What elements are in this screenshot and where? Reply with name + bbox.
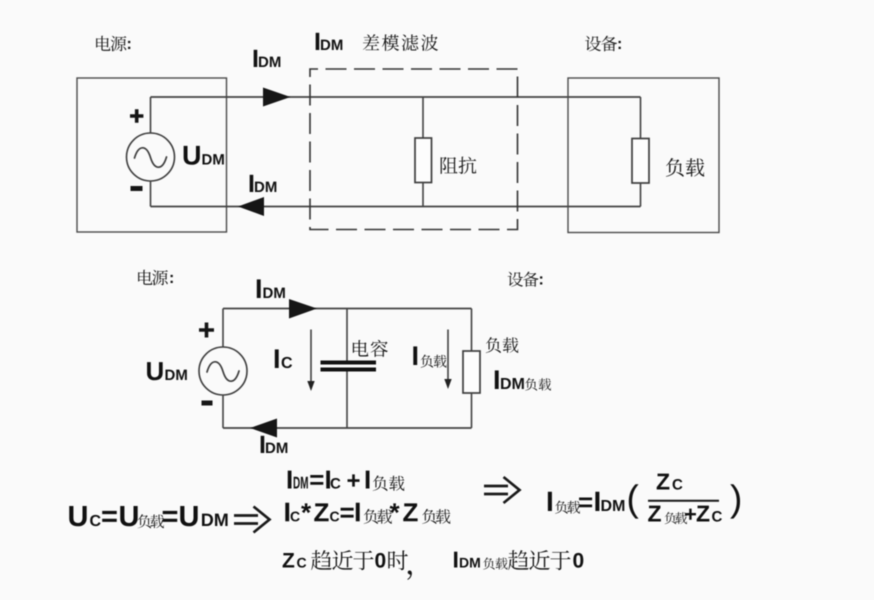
load component rect 负载 (top circuit) <box>632 139 649 184</box>
label: + terminal (middle circuit) <box>199 323 214 338</box>
wire: source negative lead (top circuit) <box>150 181 152 207</box>
arrow: I_DM current direction on top bus <box>263 88 291 107</box>
equipment enclosure box 设备 (top circuit) <box>568 78 719 233</box>
label: 负载 (load), top circuit <box>666 158 704 177</box>
label I_DM (top bus, middle circuit) <box>257 279 285 298</box>
arrow: implies (second double arrow) <box>484 477 520 503</box>
label I_DM (top bus, top circuit) <box>254 50 281 67</box>
capacitor C 电容: bottom plate <box>321 368 377 372</box>
label: 阻抗 (impedance) <box>441 157 477 174</box>
wire: source positive lead (top circuit) <box>150 97 152 134</box>
wire: top bus from source to load (top circuit) <box>151 96 641 98</box>
note: Zc tends to 0, I_DM负载 tends to 0 <box>283 550 584 580</box>
arrow: I_DM return (middle bottom bus) <box>250 419 277 438</box>
label I_DM (bottom bus, middle circuit) <box>261 436 288 453</box>
label I_DM (filter input) <box>316 33 343 50</box>
label I_DM负载 (load current), middle circuit <box>495 370 551 390</box>
label I_DM (bottom bus, top circuit) <box>250 175 277 192</box>
wire: impedance bottom lead <box>422 183 424 207</box>
label: 负载 (load), middle circuit <box>486 337 519 353</box>
wire: bottom bus / return (middle circuit) <box>223 427 472 429</box>
arrow: implies (first double arrow) <box>234 507 270 533</box>
label U_DM source value (middle circuit) <box>147 362 187 380</box>
label: 差模滤波 (differential mode filtering) <box>363 34 438 51</box>
wire: source positive lead (middle circuit) <box>222 309 224 348</box>
label I_C (capacitor branch current) <box>275 349 292 368</box>
wire: load top lead (top circuit) <box>640 97 642 139</box>
equation: I_负载 = I_DM ( Zc / (Z_负载 + Zc) ) <box>548 474 740 524</box>
label U_DM source value (top circuit) <box>184 146 224 165</box>
wire: source negative lead (middle circuit) <box>222 395 224 429</box>
impedance Z component 阻抗 (rect) <box>415 138 432 183</box>
equation: I_DM = I_C + I_负载 <box>288 471 405 491</box>
equation: U_C = U_负载 = U_DM <box>69 506 227 528</box>
equation: I_C * Z_C = I_负载 * Z_负载 <box>285 503 450 524</box>
capacitor C 电容: top plate <box>321 361 377 365</box>
filter dashed box 差模滤波 (differential-mode filter) <box>310 69 518 230</box>
arrow: I_DM return direction on bottom bus <box>238 197 264 216</box>
label: 电源 (power source) title, middle circuit <box>138 270 173 286</box>
label: 电源 (power source) title, top circuit <box>96 36 130 52</box>
wire: load top lead (middle circuit) <box>471 309 473 352</box>
wire: impedance top lead <box>422 97 424 138</box>
arrow: I_C direction line (down) <box>307 330 314 392</box>
wire: capacitor top lead <box>346 309 348 362</box>
label: 电容 (capacitor) <box>353 340 388 357</box>
arrow: I_DM direction (middle top bus) <box>289 299 317 319</box>
source U_DM: AC source circle with sine (top circuit) <box>127 133 175 181</box>
load component rect 负载 (middle circuit) <box>463 351 480 393</box>
arrow: I_负载 direction line (down) <box>444 330 451 390</box>
label I_负载 (load branch current) <box>413 346 446 367</box>
wire: capacitor bottom lead <box>346 372 348 429</box>
source enclosure box (top circuit) <box>77 78 227 232</box>
label: - terminal (top circuit) <box>131 186 143 191</box>
label: 设备 (equipment) title, middle circuit <box>508 272 543 287</box>
wire: load bottom lead (top circuit) <box>640 183 642 207</box>
source U_DM: AC source circle with sine (middle circuit) <box>199 347 247 395</box>
wire: top bus (middle circuit) <box>223 308 472 310</box>
wire: load bottom lead (middle circuit) <box>471 393 473 428</box>
label: - terminal (middle circuit) <box>202 401 213 406</box>
label: + terminal (top circuit) <box>130 109 143 122</box>
wire: bottom bus / return (top circuit) <box>151 206 641 208</box>
label: 设备 (equipment) title, top circuit <box>585 36 621 52</box>
